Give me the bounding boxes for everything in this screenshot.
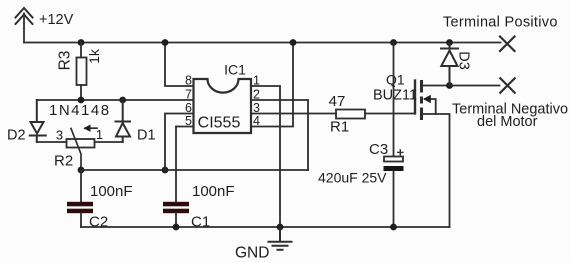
svg-text:D3: D3 (456, 51, 472, 70)
resistor R1 (336, 110, 415, 119)
node junction R2 wiper / row2 net (78, 167, 85, 174)
svg-text:420uF 25V: 420uF 25V (318, 170, 387, 186)
svg-text:BUZ11: BUZ11 (373, 88, 417, 104)
svg-text:1: 1 (96, 127, 103, 142)
diode D2 (30, 100, 46, 142)
wire pin6 to row2 net (165, 114, 194, 171)
svg-text:Q1: Q1 (386, 72, 405, 88)
wire top +12V rail (24, 42, 501, 44)
wire ground rail (81, 226, 450, 228)
wire pin2 to row2 net (251, 100, 308, 170)
node junction pin8 riser / rail (162, 39, 169, 46)
wire pin3 to R1 (251, 113, 336, 115)
wire pin4 to +12V rail (251, 43, 293, 127)
node junction C3 top / rail (390, 39, 397, 46)
svg-text:1k: 1k (86, 48, 102, 64)
svg-text:7: 7 (185, 88, 192, 102)
svg-text:100nF: 100nF (192, 183, 235, 200)
wire R2 to D1 (95, 141, 123, 143)
terminal Terminal Negativo (X) (500, 78, 514, 92)
potentiometer R2 (67, 125, 98, 171)
capacitor C1 (163, 127, 189, 228)
svg-text:3: 3 (56, 128, 63, 143)
wire pin8 to +12V rail (165, 43, 194, 87)
svg-text:1N4148: 1N4148 (49, 102, 111, 119)
svg-text:D2: D2 (7, 128, 26, 144)
svg-text:del Motor: del Motor (477, 114, 538, 130)
wire row2 net (trigger/threshold) (81, 169, 308, 171)
svg-text:+12V: +12V (39, 12, 74, 28)
wire D2 to R2 (37, 141, 67, 143)
wire pin5 to C1 (176, 126, 194, 128)
svg-text:Terminal Positivo: Terminal Positivo (443, 15, 558, 31)
terminal Terminal Positivo (X) (500, 37, 515, 52)
ground symbol (269, 227, 292, 250)
node junction pin6 riser (162, 167, 169, 174)
transistor Q1 MOSFET (415, 80, 450, 227)
svg-text:R1: R1 (330, 119, 349, 136)
svg-text:R3: R3 (57, 51, 74, 71)
svg-text:C2: C2 (89, 214, 108, 231)
svg-text:GND: GND (235, 245, 269, 262)
power symbol +12V (16, 8, 33, 43)
node junction D1 top (119, 97, 126, 104)
node junction pin4 riser / rail (290, 39, 297, 46)
capacitor C2 (67, 170, 93, 227)
node junction R3 bottom (78, 97, 85, 104)
plus sign C3 polarity (398, 150, 403, 155)
diode D1 (116, 100, 131, 142)
node junction drain / D3 (446, 82, 453, 89)
svg-text:IC1: IC1 (224, 62, 246, 78)
wire pin1 to ground (251, 86, 280, 227)
svg-text:47: 47 (329, 93, 346, 110)
resistor R3 (77, 43, 87, 101)
svg-text:R2: R2 (54, 153, 73, 170)
diode D3 (441, 43, 458, 86)
node junction C1 / ground (173, 224, 180, 231)
node junction pin1 riser / ground (277, 224, 284, 231)
svg-text:CI555: CI555 (198, 115, 241, 132)
IC U1 555 timer body (194, 79, 252, 133)
wire drain net to terminal (450, 85, 500, 87)
node junction R3 / top rail (78, 39, 85, 46)
svg-text:C1: C1 (191, 214, 210, 231)
node junction D3 top / rail (446, 39, 453, 46)
svg-text:C3: C3 (369, 141, 388, 158)
wire pin7 net (discharge) (37, 99, 194, 101)
svg-text:100nF: 100nF (90, 183, 133, 200)
capacitor C3 (384, 43, 404, 228)
svg-text:D1: D1 (137, 128, 156, 144)
node junction C3 / ground (390, 224, 397, 231)
